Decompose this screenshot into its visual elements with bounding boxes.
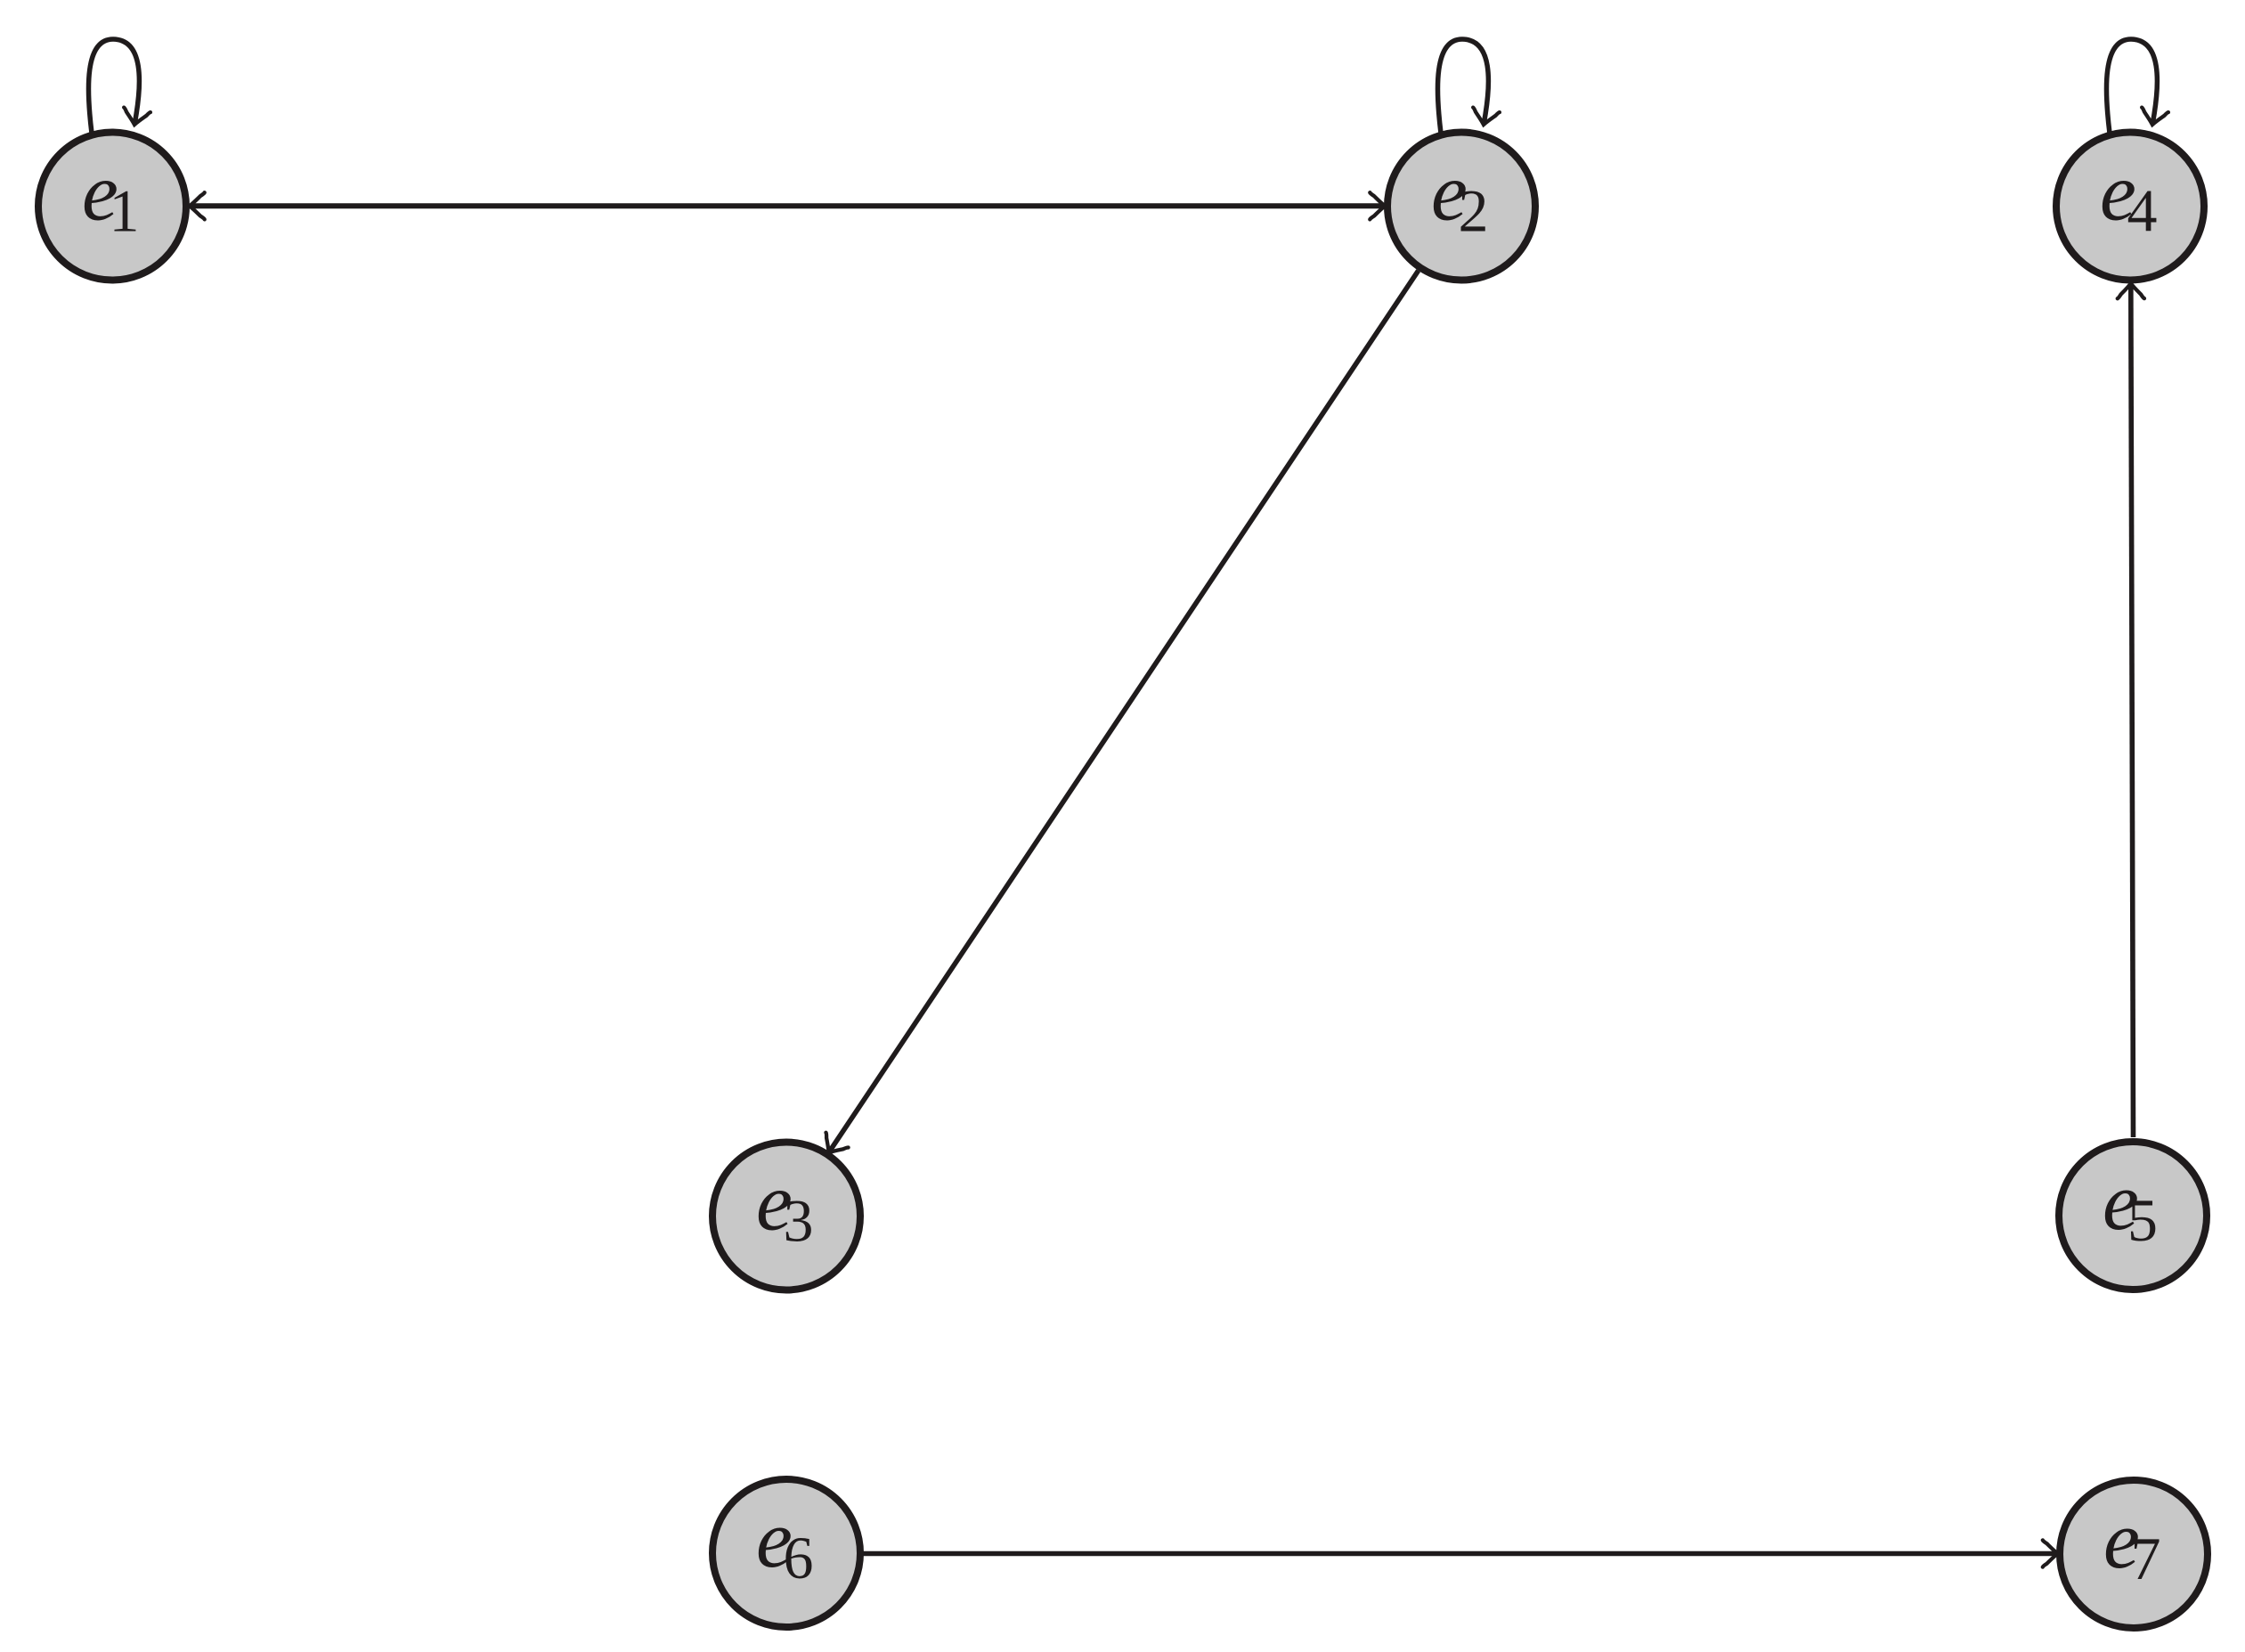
wire e5 to e4 (vertical arrow) [2118,283,2144,1137]
svg-text:1: 1 [110,177,140,245]
node e6 [712,1479,860,1627]
svg-text:4: 4 [2127,177,2158,245]
node e1 [38,133,186,281]
svg-text:6: 6 [784,1524,814,1591]
self-loop on e1 [88,39,150,134]
node e7 [2060,1480,2208,1628]
svg-text:3: 3 [784,1187,814,1255]
svg-text:2: 2 [1459,177,1489,245]
wire e2 to e3 (diagonal arrow) [817,271,1419,1160]
svg-text:5: 5 [2127,1186,2158,1254]
self-loop on e2 [1437,39,1499,134]
node e5 [2059,1142,2207,1290]
svg-text:7: 7 [2131,1525,2161,1592]
wire e6 to e7 (horizontal arrow) [862,1540,2058,1567]
node e4 [2056,133,2204,281]
node e3 [712,1143,860,1290]
node e2 [1387,133,1535,281]
wire e2 to e1 (double-headed horizontal edge) [190,192,1385,219]
self-loop on e4 [2106,39,2168,134]
